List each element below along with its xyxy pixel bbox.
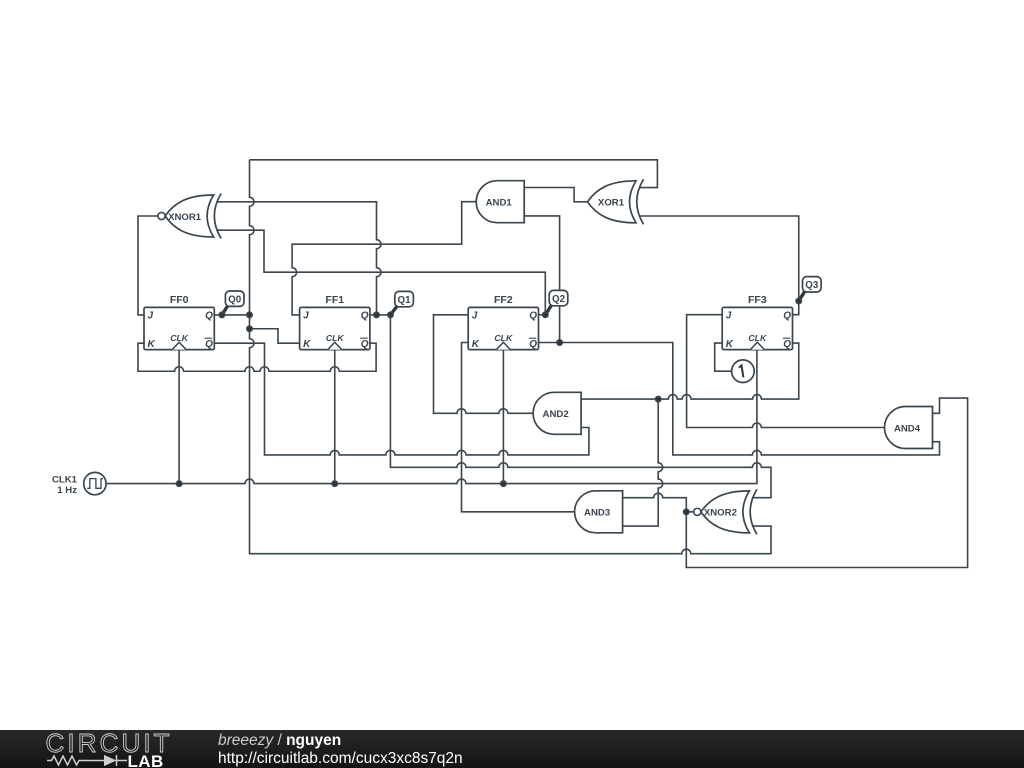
svg-text:J: J [472, 311, 478, 322]
wire XOR1 output to AND1 input A [524, 188, 587, 202]
svg-text:Q: Q [205, 339, 213, 350]
XNOR gate XNOR2 [694, 489, 757, 534]
wire XNOR2 output loop to AND4 input A [686, 398, 967, 567]
svg-text:CLK1: CLK1 [52, 474, 78, 485]
svg-text:XNOR2: XNOR2 [704, 508, 737, 519]
wire FF1 CLK [334, 350, 336, 484]
AND gate AND3 [575, 491, 623, 533]
wire FF2 Qbar to AND4 input B [539, 343, 940, 455]
svg-text:FF3: FF3 [748, 294, 767, 306]
AND gate AND1 [476, 181, 524, 223]
url line [218, 750, 463, 768]
XNOR gate XNOR1 [158, 194, 221, 239]
junction dots [176, 298, 801, 514]
svg-text:CLK: CLK [748, 333, 767, 343]
svg-text:K: K [726, 339, 734, 350]
svg-text:K: K [148, 339, 156, 350]
wire FF3 Q lead [793, 314, 799, 316]
AND gate AND2 [533, 392, 581, 434]
wire Q0 net main vertical and bottom run to XNOR2 input B [250, 160, 772, 554]
svg-text:LAB: LAB [128, 752, 164, 768]
wire FF2 K to AND3 output [462, 343, 575, 512]
svg-text:Q1: Q1 [398, 295, 412, 306]
svg-text:XNOR1: XNOR1 [168, 212, 202, 223]
wire FF2 Q lead [539, 314, 546, 316]
wire AND2 output to FF2 J [434, 315, 534, 414]
resistor-diode glyph [47, 755, 127, 766]
svg-text:Q0: Q0 [228, 294, 242, 305]
svg-text:Q: Q [361, 311, 369, 322]
svg-text:Q: Q [205, 311, 213, 322]
svg-text:FF0: FF0 [170, 294, 189, 306]
flip-flop FF0 [144, 294, 214, 350]
initial-condition clock symbol at FF3 [732, 360, 755, 383]
wire FF0 CLK [178, 350, 180, 484]
svg-text:K: K [303, 339, 311, 350]
wire XOR1 input B from FF3 Q [639, 216, 798, 315]
svg-text:AND4: AND4 [894, 423, 921, 434]
node flag Q2 [545, 290, 568, 314]
svg-text:AND3: AND3 [584, 508, 610, 519]
wire XNOR1 output to FF0 J [138, 216, 158, 315]
wire XNOR2 output lead [686, 511, 693, 513]
svg-text:Q3: Q3 [805, 280, 819, 291]
author line [218, 732, 341, 750]
svg-text:FF2: FF2 [494, 294, 513, 306]
wire XNOR1 input B to FF2 Q node [216, 230, 545, 315]
flip-flop FF3 [722, 294, 792, 350]
wire top run Q0 to XOR1 input A [250, 160, 658, 188]
AND gate AND4 [885, 407, 933, 449]
wire AND3 input A from XNOR2 output [623, 493, 687, 512]
XOR gate XOR1 [588, 179, 644, 224]
wire Q0 branch to FF1 K [250, 329, 300, 343]
flip-flop FF2 [468, 294, 538, 350]
wire FF0 Q lead [214, 314, 249, 316]
svg-text:K: K [472, 339, 480, 350]
svg-text:Q2: Q2 [552, 294, 566, 305]
svg-text:J: J [303, 311, 309, 322]
svg-text:1 Hz: 1 Hz [57, 485, 77, 496]
wire FF1 Q to Q1 node and XNOR2 input A [370, 315, 771, 498]
svg-text:AND1: AND1 [486, 198, 513, 209]
wire FF3 Qbar branch to AND3 input B [623, 399, 663, 526]
wire FF3 K to clock symbol [715, 343, 732, 371]
node flag Q3 [799, 277, 821, 301]
wire FF0 K to FF1 Qbar bus [138, 343, 376, 371]
svg-text:Q: Q [361, 339, 369, 350]
svg-text:XOR1: XOR1 [598, 198, 625, 209]
svg-text:Q: Q [529, 311, 537, 322]
svg-text:Q: Q [529, 339, 537, 350]
svg-text:Q: Q [783, 311, 791, 322]
svg-text:Q: Q [783, 339, 791, 350]
flip-flop FF1 [300, 294, 370, 350]
CircuitLab logo [0, 730, 210, 768]
node flag Q1 [390, 291, 413, 315]
svg-text:CLK: CLK [326, 333, 345, 343]
svg-text:J: J [148, 311, 154, 322]
wire XNOR1 input A to Q1 node [216, 202, 381, 315]
svg-text:CLK: CLK [170, 333, 189, 343]
svg-text:FF1: FF1 [325, 294, 344, 306]
wire clock bus CLK1 to FF3 CLK [106, 350, 757, 484]
wire FF0 Qbar to AND2 input B [214, 343, 589, 455]
wire FF2 CLK [502, 350, 504, 484]
wire AND1 output to FF1 J [292, 202, 476, 315]
node flag Q0 [222, 291, 244, 315]
wire AND1 input B from FF2 Qbar [524, 216, 559, 343]
clock source CLK1 1 Hz [52, 472, 106, 495]
svg-text:CLK: CLK [494, 333, 513, 343]
wire AND4 output to FF3 J [687, 315, 885, 428]
footer bar [0, 730, 1024, 768]
svg-text:J: J [726, 311, 732, 322]
svg-text:AND2: AND2 [543, 409, 569, 420]
wire FF3 Qbar to AND2 input A [581, 343, 799, 399]
